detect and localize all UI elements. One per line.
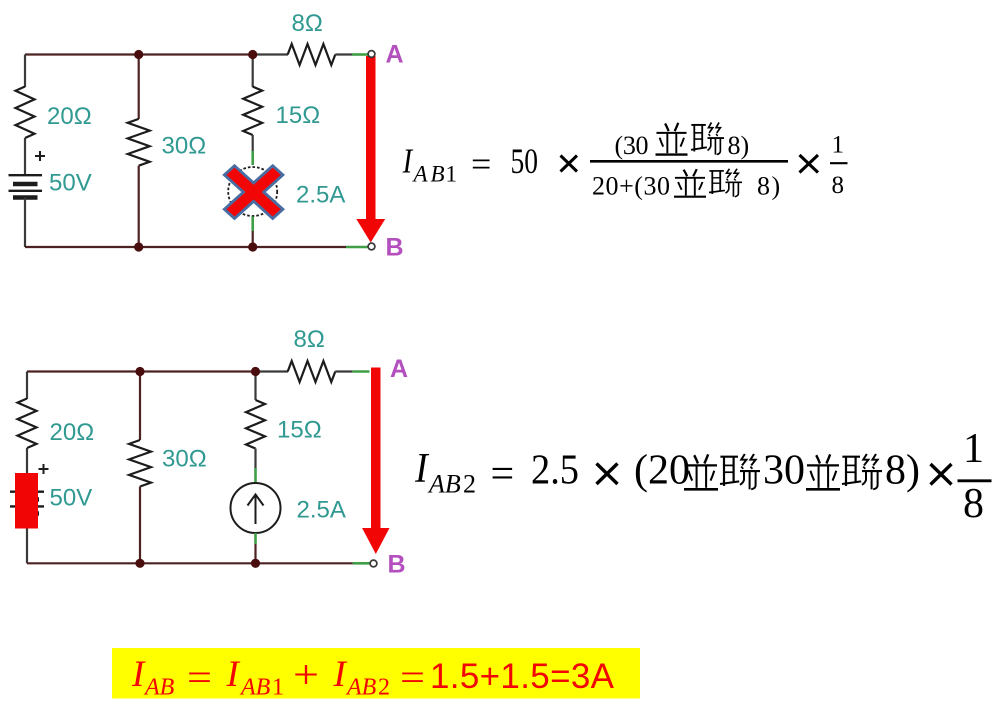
svg-text:): ) bbox=[772, 172, 781, 201]
red current arrow A to B circuit 2 bbox=[362, 368, 389, 555]
svg-text:50V: 50V bbox=[49, 170, 92, 197]
value label 30ohm circuit 2 bbox=[162, 446, 207, 473]
svg-text:1.5+1.5=3A: 1.5+1.5=3A bbox=[430, 657, 615, 696]
node B label circuit 1 bbox=[386, 234, 404, 262]
resistor R3 15ohm circuit 1 bbox=[243, 87, 262, 135]
node A label circuit 2 bbox=[390, 355, 408, 383]
svg-text:2: 2 bbox=[378, 675, 390, 701]
wire bottom bus circuit 1 bbox=[25, 246, 346, 248]
resistor R4 8ohm circuit 1 bbox=[288, 44, 336, 65]
value label 8ohm circuit 1 bbox=[292, 10, 323, 37]
wire top right segment to 8-ohm circuit 2 bbox=[256, 370, 289, 372]
wire green stub at node A circuit 1 bbox=[352, 53, 368, 56]
svg-text:AB: AB bbox=[239, 675, 271, 701]
junction dot bottom branch2 circuit 2 bbox=[135, 559, 144, 568]
svg-text:1: 1 bbox=[963, 426, 984, 472]
wire green stub at node B circuit 1 bbox=[346, 246, 368, 249]
wire bottom bus circuit 2 bbox=[27, 562, 353, 564]
value label 2.5A circuit 2 bbox=[297, 497, 346, 524]
wire branch3 upper lead circuit 2 bbox=[254, 372, 256, 401]
current source I2 2.5A circuit 2 bbox=[231, 483, 281, 533]
svg-text:8Ω: 8Ω bbox=[294, 326, 325, 353]
svg-text:AB: AB bbox=[412, 162, 445, 187]
wire green stub below current source circuit 2 bbox=[254, 533, 257, 544]
svg-text:=: = bbox=[471, 144, 491, 184]
junction dot bottom branch2 circuit 1 bbox=[134, 242, 143, 251]
wire 15ohm to current source circuit 1 bbox=[252, 135, 254, 151]
wire 15ohm to current source circuit 2 bbox=[254, 449, 256, 469]
svg-text:+: + bbox=[293, 652, 319, 697]
wire left vertical upper circuit 2 bbox=[26, 372, 28, 400]
value label 15ohm circuit 1 bbox=[276, 102, 321, 129]
wire branch 30ohm upper circuit 1 bbox=[138, 55, 140, 120]
svg-text:AB: AB bbox=[427, 470, 461, 499]
wire 8ohm to node A circuit 2 bbox=[335, 370, 352, 372]
svg-text:(20: (20 bbox=[634, 448, 690, 494]
svg-text:20Ω: 20Ω bbox=[50, 419, 95, 446]
svg-text:20+(30: 20+(30 bbox=[592, 172, 670, 201]
wire top right segment to 8-ohm resistor circuit 1 bbox=[253, 53, 288, 55]
junction dot top branch2 circuit 1 bbox=[134, 50, 143, 59]
svg-text:30Ω: 30Ω bbox=[162, 446, 207, 473]
wire green stub at node B circuit 2 bbox=[353, 562, 370, 565]
wire branch 30ohm upper circuit 2 bbox=[139, 372, 141, 441]
svg-text:I: I bbox=[131, 654, 146, 695]
svg-text:AB: AB bbox=[143, 675, 175, 701]
value label 20ohm circuit 1 bbox=[47, 103, 92, 130]
svg-text:1: 1 bbox=[446, 162, 458, 187]
svg-text:30Ω: 30Ω bbox=[162, 133, 207, 160]
svg-text:A: A bbox=[390, 355, 408, 383]
wire top bus circuit 1 bbox=[25, 53, 253, 55]
node B terminal circuit 1 bbox=[368, 243, 375, 250]
red current arrow A to B circuit 1 bbox=[356, 56, 385, 243]
svg-text:8: 8 bbox=[757, 172, 770, 201]
wire green stub below current source circuit 1 bbox=[251, 217, 254, 232]
svg-text:2.5: 2.5 bbox=[531, 448, 579, 494]
svg-text:15Ω: 15Ω bbox=[276, 102, 321, 129]
junction dot bottom branch3 circuit 1 bbox=[248, 242, 257, 251]
wire green stub above current source circuit 1 bbox=[251, 151, 254, 165]
value label 30ohm circuit 1 bbox=[162, 133, 207, 160]
wire green stub above current source circuit 2 bbox=[254, 468, 257, 483]
wire battery to bottom bus circuit 2 bbox=[26, 529, 28, 564]
wire branch 30ohm lower circuit 1 bbox=[138, 166, 140, 247]
red short-circuit rectangle over battery circuit 2 bbox=[15, 473, 38, 529]
svg-text:8): 8) bbox=[728, 131, 750, 160]
battery V2 50V shorted circuit 2 bbox=[10, 492, 44, 514]
wire branch3 upper lead circuit 1 bbox=[252, 55, 254, 88]
svg-text:B: B bbox=[388, 551, 406, 579]
value label 50V circuit 2 bbox=[50, 485, 93, 512]
resistor R2 30ohm circuit 1 bbox=[128, 119, 150, 166]
value label 20ohm circuit 2 bbox=[50, 419, 95, 446]
svg-text:30: 30 bbox=[763, 448, 805, 494]
svg-text:2: 2 bbox=[463, 470, 476, 499]
junction dot top branch2 circuit 2 bbox=[135, 367, 144, 376]
value label 8ohm circuit 2 bbox=[294, 326, 325, 353]
wire current source to bottom bus circuit 1 bbox=[252, 231, 254, 247]
svg-text:A: A bbox=[386, 41, 404, 69]
svg-text:(30: (30 bbox=[615, 131, 649, 160]
battery V2 50V plus sign circuit 2 bbox=[39, 464, 49, 474]
svg-text:1: 1 bbox=[272, 675, 284, 701]
node B terminal circuit 2 bbox=[370, 560, 377, 567]
node B label circuit 2 bbox=[388, 551, 406, 579]
svg-text:2.5A: 2.5A bbox=[297, 497, 346, 524]
value label 15ohm circuit 2 bbox=[277, 417, 322, 444]
wire resistor to battery circuit 1 bbox=[24, 138, 26, 175]
resistor R6 30ohm circuit 2 bbox=[129, 440, 151, 487]
svg-text:AB: AB bbox=[345, 675, 377, 701]
svg-text:I: I bbox=[402, 141, 414, 180]
svg-text:50: 50 bbox=[511, 141, 539, 181]
junction dot top branch3 circuit 2 bbox=[251, 367, 260, 376]
svg-text:8: 8 bbox=[832, 172, 845, 199]
svg-text:=: = bbox=[491, 452, 515, 498]
red X open-circuit mark over current source circuit 1 bbox=[224, 166, 283, 219]
node A terminal circuit 1 bbox=[368, 51, 375, 58]
value label 50V circuit 1 bbox=[49, 170, 92, 197]
current source I1 circle circuit 1 bbox=[228, 167, 277, 216]
wire from 8-ohm to node A circuit 1 bbox=[335, 53, 352, 55]
equation IAB1 bbox=[402, 123, 848, 201]
wire battery to bottom bus circuit 1 bbox=[24, 198, 26, 248]
node A label circuit 1 bbox=[386, 41, 404, 69]
battery V1 50V plus sign circuit 1 bbox=[35, 151, 45, 161]
result highlight box bbox=[112, 648, 640, 699]
battery V1 50V circuit 1 bbox=[9, 175, 43, 197]
wire left vertical upper circuit 1 bbox=[24, 55, 26, 88]
wire green stub at node A circuit 2 bbox=[352, 370, 369, 373]
svg-text:=: = bbox=[187, 657, 212, 699]
resistor R1 20ohm circuit 1 bbox=[16, 87, 35, 139]
svg-text:8: 8 bbox=[963, 481, 984, 527]
wire resistor to battery circuit 2 bbox=[26, 448, 28, 478]
wire top bus circuit 2 bbox=[27, 370, 256, 372]
svg-text:1: 1 bbox=[832, 131, 845, 158]
resistor R8 8ohm circuit 2 bbox=[288, 361, 336, 382]
equation IAB2 bbox=[414, 426, 991, 527]
resistor R5 20ohm circuit 2 bbox=[18, 399, 37, 449]
wire current source to bottom bus circuit 2 bbox=[254, 544, 256, 563]
value label 2.5A circuit 1 bbox=[296, 182, 345, 209]
wire branch 30ohm lower circuit 2 bbox=[139, 487, 141, 564]
svg-text:50V: 50V bbox=[50, 485, 93, 512]
svg-text:I: I bbox=[333, 654, 348, 695]
svg-text:20Ω: 20Ω bbox=[47, 103, 92, 130]
svg-text:2.5A: 2.5A bbox=[296, 182, 345, 209]
junction dot top branch3 circuit 1 bbox=[248, 50, 257, 59]
svg-text:B: B bbox=[386, 234, 404, 262]
resistor R7 15ohm circuit 2 bbox=[246, 400, 265, 449]
svg-text:=: = bbox=[400, 657, 425, 699]
svg-text:I: I bbox=[226, 654, 241, 695]
svg-text:8): 8) bbox=[885, 448, 920, 494]
junction dot bottom branch3 circuit 2 bbox=[251, 559, 260, 568]
result equation IAB = IAB1 + IAB2 bbox=[131, 652, 615, 701]
svg-text:I: I bbox=[414, 444, 429, 491]
svg-text:8Ω: 8Ω bbox=[292, 10, 323, 37]
svg-text:15Ω: 15Ω bbox=[277, 417, 322, 444]
